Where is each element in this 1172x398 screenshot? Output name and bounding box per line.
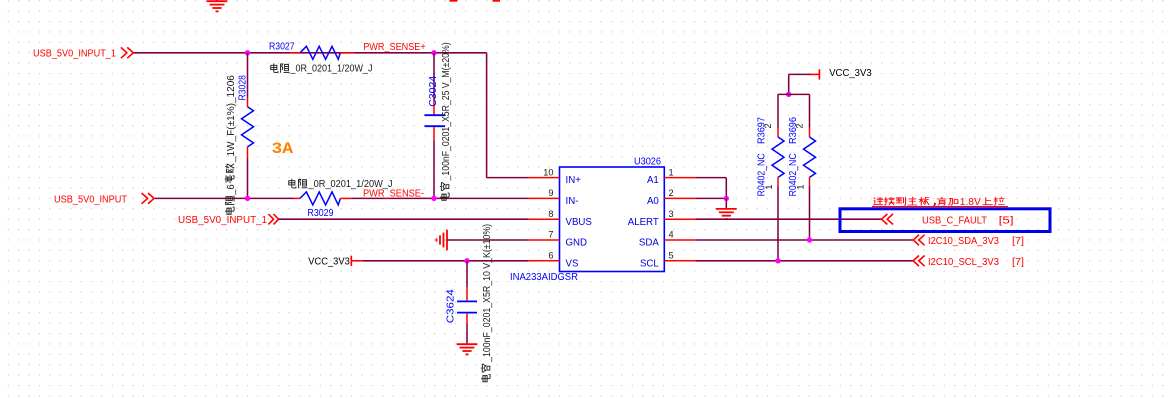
svg-text:2: 2	[763, 123, 773, 128]
svg-text:VCC_3V3: VCC_3V3	[829, 68, 872, 79]
power port VCC_3V3 at VS pin	[308, 256, 362, 268]
wire VCC_3V3 feed	[789, 73, 810, 75]
svg-text:ALERT: ALERT	[628, 217, 659, 228]
svg-text:C3624: C3624	[446, 288, 457, 323]
wire to pin 10 IN+	[487, 177, 529, 179]
svg-text:IN-: IN-	[566, 196, 579, 207]
wire C3024 bottom	[433, 141, 435, 199]
resistor R3028 bottom pin	[247, 147, 249, 159]
svg-text:8: 8	[548, 209, 553, 219]
pin 3 ALERT stub	[664, 218, 695, 220]
wire ground to pin 7	[447, 239, 529, 241]
junction node R3697/SCL	[775, 258, 780, 263]
capacitor C3024 bottom pin	[433, 127, 435, 142]
ground GND at pin 7	[446, 230, 448, 251]
svg-text:GND: GND	[566, 238, 588, 249]
pin 5 SCL stub	[664, 260, 695, 262]
wire R3696 top	[809, 94, 811, 127]
svg-text:1: 1	[795, 184, 805, 189]
ground below A0	[716, 208, 737, 210]
pin 7 GND stub	[529, 239, 560, 241]
pin 1 A1 stub	[664, 177, 695, 179]
resistor R3696 body	[804, 137, 816, 177]
svg-text:USB_5V0_INPUT_1: USB_5V0_INPUT_1	[33, 49, 116, 60]
junction node VCC split	[786, 92, 791, 97]
harness box USB_C_FAULT	[840, 209, 1050, 232]
resistor R3697 bottom pin	[777, 177, 779, 185]
svg-text:PWR_SENSE-: PWR_SENSE-	[363, 189, 424, 200]
svg-text:2: 2	[669, 188, 674, 198]
svg-text:U3026: U3026	[634, 157, 661, 168]
svg-text:[7]: [7]	[1012, 236, 1024, 247]
junction node at C3024 top	[431, 50, 436, 55]
pin 4 SDA stub	[664, 239, 695, 241]
wire C3624 top	[466, 261, 468, 287]
resistor R3696 top pin	[809, 128, 811, 138]
resistor R3029 right pin	[340, 197, 351, 199]
junction node R3696/SDA	[807, 237, 812, 242]
svg-text:_0R_0201_1/20W_J: _0R_0201_1/20W_J	[308, 179, 393, 190]
clipped red mark 1 top edge	[450, 0, 458, 2]
svg-text:USB_C_FAULT: USB_C_FAULT	[922, 215, 987, 226]
resistor R3027 body	[300, 46, 340, 59]
wire A0 to junction	[695, 197, 726, 199]
wire R3697 to SCL	[777, 186, 779, 261]
wire R3028 top	[247, 53, 249, 98]
svg-text:USB_5V0_INPUT_1: USB_5V0_INPUT_1	[178, 215, 267, 226]
svg-text:VS: VS	[566, 258, 579, 269]
resistor R3029 body	[300, 192, 340, 205]
svg-text:5: 5	[669, 251, 674, 261]
wire SDA to sheet entry	[695, 239, 913, 241]
resistor R3027 left pin	[290, 52, 300, 54]
resistor R3697 body	[772, 137, 784, 177]
ground at top edge	[216, 0, 218, 1]
svg-text:1: 1	[669, 167, 674, 177]
svg-text:[7]: [7]	[1012, 257, 1024, 268]
sheet entry chevrons SDA	[913, 235, 919, 246]
svg-text:1: 1	[764, 184, 774, 189]
svg-text:_0R_0201_1/20W_J: _0R_0201_1/20W_J	[290, 63, 373, 74]
wire SCL to sheet entry	[695, 260, 913, 262]
svg-text:R3029: R3029	[308, 208, 334, 219]
op-amp U3026 INA233 body	[560, 167, 665, 272]
wire PWR_SENSE- to pin 9 IN-	[351, 197, 528, 199]
svg-text:VBUS: VBUS	[566, 217, 593, 228]
svg-text:9: 9	[548, 188, 553, 198]
pin 10 IN+ stub	[529, 177, 560, 179]
svg-text:4: 4	[669, 230, 674, 240]
svg-text:7: 7	[548, 230, 553, 240]
wire net USB_5V0_INPUT left segment	[155, 197, 294, 199]
svg-text:2: 2	[794, 123, 804, 128]
wire VCC_3V3 to pin 6 VS	[363, 260, 529, 262]
svg-text:_100nF_0201_X5R_25 V_M(±20%): _100nF_0201_X5R_25 V_M(±20%)	[441, 42, 452, 181]
value label of R3028 (6 milliohm 1W 1206)	[225, 75, 237, 214]
port USB_5V0_INPUT (left)	[54, 193, 154, 205]
pin 6 VS stub	[529, 260, 560, 262]
capacitor C3624 bottom pin	[466, 314, 468, 324]
capacitor C3024 top pin	[433, 101, 435, 115]
wire net USB_5V0_INPUT_1 / PWR_SENSE+ top horizontal	[133, 52, 486, 54]
resistor R3696 bottom pin	[809, 177, 811, 185]
port USB_5V0_INPUT_1 (top left)	[33, 47, 133, 59]
sheet entry chevrons SCL	[913, 256, 919, 267]
junction node C3624 tap	[464, 258, 469, 263]
wire R3697 top	[777, 94, 779, 127]
wire C3024 top	[433, 53, 435, 101]
pin 9 IN- stub	[529, 197, 560, 199]
ground below C3624	[457, 343, 478, 345]
junction node at R3028 top	[245, 50, 250, 55]
wire A1 to junction	[695, 177, 726, 179]
svg-text:_6: _6	[226, 184, 237, 195]
port USB_5V0_INPUT_1 (to VBUS)	[178, 214, 279, 226]
junction node C3024 bottom	[431, 196, 436, 201]
svg-text:10: 10	[543, 167, 553, 177]
svg-text:A0: A0	[647, 196, 659, 207]
wire PWR_SENSE+ vertical drop to IN+	[486, 53, 488, 178]
svg-text:_1W_F(±1%)_1206: _1W_F(±1%)_1206	[226, 75, 237, 163]
power port VCC_3V3 (top right)	[810, 68, 872, 79]
wire to pin 8 VBUS	[279, 218, 529, 220]
wire R3696 to SDA	[809, 186, 811, 240]
svg-text:R3696: R3696	[788, 117, 799, 144]
svg-text:PWR_SENSE+: PWR_SENSE+	[363, 42, 426, 53]
junction node R3028 bottom	[245, 196, 250, 201]
svg-text:I2C10_SCL_3V3: I2C10_SCL_3V3	[928, 257, 999, 268]
svg-text:R3697: R3697	[756, 117, 767, 144]
value label of R3029 (0R 0201 1/20W)	[289, 179, 393, 190]
note text: connect to mainboard with 1.8V pullup	[872, 197, 1008, 208]
clipped red mark 2 top edge	[493, 0, 501, 2]
capacitor C3624 plates	[457, 300, 477, 302]
svg-text:INA233AIDGSR: INA233AIDGSR	[510, 272, 578, 283]
capacitor C3024 plates	[425, 114, 446, 116]
resistor R3029 left pin	[294, 197, 300, 199]
wire junction to ground	[725, 198, 727, 209]
resistor R3697 top pin	[777, 128, 779, 138]
svg-text:3: 3	[669, 209, 674, 219]
svg-text:R3028: R3028	[237, 75, 248, 101]
svg-text:USB_5V0_INPUT: USB_5V0_INPUT	[54, 194, 127, 205]
wire C3624 to ground	[466, 324, 468, 344]
svg-text:SDA: SDA	[639, 238, 659, 249]
wire ALERT to harness	[695, 218, 881, 220]
wire R3028 bottom	[247, 159, 249, 199]
value label of C3624 (100nF 0201 X5R 10V)	[481, 224, 493, 382]
svg-text:I2C10_SDA_3V3: I2C10_SDA_3V3	[928, 236, 999, 247]
value label of R3027 (0R 0201 1/20W)	[271, 63, 373, 74]
junction node A0/A1	[724, 196, 729, 201]
svg-text:R3027: R3027	[269, 42, 295, 53]
svg-text:IN+: IN+	[566, 175, 582, 186]
svg-text:A1: A1	[647, 175, 659, 186]
capacitor C3624 top pin	[466, 287, 468, 300]
svg-text:SCL: SCL	[640, 258, 659, 269]
pin 8 VBUS stub	[529, 218, 560, 220]
resistor R3028 body	[242, 107, 254, 147]
svg-text:6: 6	[548, 251, 553, 261]
svg-text:[5]: [5]	[999, 215, 1014, 226]
sheet entry chevrons USB_C_FAULT	[882, 214, 888, 225]
resistor R3027 right pin	[340, 52, 354, 54]
svg-text:VCC_3V3: VCC_3V3	[308, 256, 350, 267]
value label of C3024 (100nF 0201 X5R 25V)	[440, 42, 452, 200]
svg-text:_100nF_0201_X5R_10 V_K(±10%): _100nF_0201_X5R_10 V_K(±10%)	[482, 224, 493, 363]
svg-text:C3024: C3024	[428, 75, 439, 107]
svg-text:3A: 3A	[272, 140, 294, 158]
resistor R3028 top pin	[247, 98, 249, 107]
pin 2 A0 stub	[664, 197, 695, 199]
wire across resistor tops	[778, 93, 810, 95]
